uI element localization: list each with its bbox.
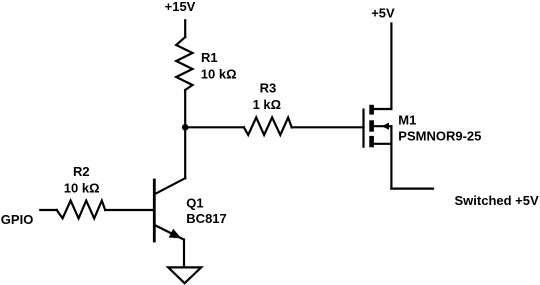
M1 drain stub bottom — [374, 143, 392, 145]
wire drain to output — [391, 188, 433, 190]
wire M1 drain down — [390, 144, 392, 189]
M1 body-drain vertical — [390, 126, 392, 144]
Q1 emitter diagonal — [155, 225, 184, 239]
wire node to R3 — [185, 126, 244, 128]
resistor R2 — [57, 201, 105, 219]
node A junction dot — [182, 124, 189, 131]
svg-text:10 kΩ: 10 kΩ — [64, 181, 100, 196]
svg-text:+15V: +15V — [165, 0, 196, 14]
mosfet M1 — [364, 105, 434, 189]
svg-text:1 kΩ: 1 kΩ — [253, 97, 282, 112]
wire +5V lead — [390, 24, 392, 110]
svg-text:Switched +5V: Switched +5V — [455, 193, 539, 208]
M1 body arrow — [382, 123, 389, 130]
Q1 emitter arrow — [169, 229, 182, 239]
M1 channel top segment — [369, 105, 374, 115]
M1 channel bottom segment — [369, 136, 374, 147]
svg-text:BC817: BC817 — [186, 211, 226, 226]
resistor R1 — [176, 37, 192, 90]
wire Q1 collector diagonal — [156, 178, 186, 194]
transistor Q1 — [154, 180, 183, 241]
wire R3 to gate — [292, 126, 364, 128]
M1 gate bar — [362, 109, 364, 148]
M1 source stub top — [374, 108, 392, 110]
ground — [168, 267, 201, 283]
resistor R3 — [244, 117, 292, 135]
wire Q1 base — [40, 209, 154, 211]
svg-text:+5V: +5V — [371, 5, 395, 20]
svg-text:PSMNOR9-25: PSMNOR9-25 — [398, 129, 481, 144]
svg-text:R3: R3 — [260, 80, 277, 95]
wire R1 to node — [184, 90, 186, 127]
M1 channel middle segment — [369, 120, 374, 131]
svg-text:Q1: Q1 — [186, 196, 203, 211]
svg-text:R2: R2 — [73, 164, 90, 179]
wire +15V lead — [184, 20, 186, 37]
svg-text:M1: M1 — [398, 112, 416, 127]
wire node to collector — [184, 127, 186, 178]
M1 body stub middle — [374, 125, 392, 127]
wire Q1 emitter lead — [183, 240, 185, 268]
svg-text:R1: R1 — [201, 50, 218, 65]
svg-text:GPIO: GPIO — [1, 212, 34, 227]
svg-text:10 kΩ: 10 kΩ — [201, 66, 237, 81]
Q1 base bar — [153, 180, 156, 241]
